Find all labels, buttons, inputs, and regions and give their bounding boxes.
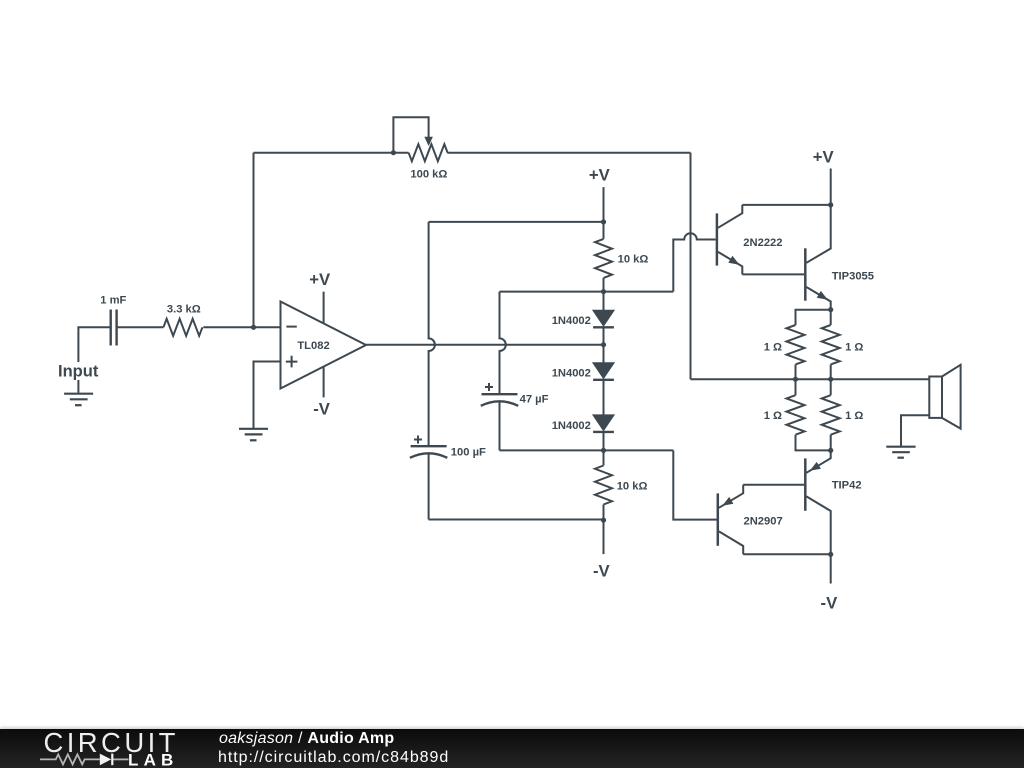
wire Q1 collector to +V rail bbox=[742, 204, 830, 206]
node junction dot (output/D1-D2) bbox=[601, 342, 606, 347]
wire -V lead middle bbox=[603, 520, 605, 554]
diode D1 1N4002 bbox=[594, 311, 613, 325]
transistor Q1 collector bbox=[718, 205, 742, 228]
wire speaker bottom terminal bbox=[901, 415, 929, 446]
svg-text:1N4002: 1N4002 bbox=[552, 420, 591, 432]
svg-text:-V: -V bbox=[593, 561, 611, 580]
svg-text:Input: Input bbox=[58, 363, 99, 381]
wire Q1 emitter to Q2 base bbox=[742, 273, 804, 275]
transistor Q1 emitter arrow bbox=[728, 256, 739, 265]
wire input corner bbox=[78, 327, 110, 362]
svg-text:2N2907: 2N2907 bbox=[744, 515, 783, 527]
svg-text:1N4002: 1N4002 bbox=[552, 368, 591, 380]
node junction dot (10k/D1) bbox=[601, 289, 606, 294]
svg-text:1 Ω: 1 Ω bbox=[764, 341, 782, 353]
speaker SPK1 body bbox=[929, 377, 942, 418]
svg-text:1 Ω: 1 Ω bbox=[845, 341, 863, 353]
wire right vertical (feedback to output node) bbox=[690, 153, 692, 380]
wire to left 1 ohm top bbox=[796, 310, 831, 325]
svg-text:100 kΩ: 100 kΩ bbox=[410, 168, 447, 180]
svg-text:TIP42: TIP42 bbox=[832, 480, 862, 492]
svg-text:LAB: LAB bbox=[128, 751, 179, 768]
svg-text:1N4002: 1N4002 bbox=[552, 315, 591, 327]
logo CIRCUIT text bbox=[44, 727, 179, 759]
wire +V lead middle bbox=[603, 187, 605, 222]
svg-text:+V: +V bbox=[589, 165, 611, 184]
wire D2-D3 bbox=[603, 380, 605, 416]
wire to 2N2222 base (with hop over x=690.5) bbox=[673, 233, 715, 291]
wire horizontal 450.4 bbox=[500, 449, 674, 451]
transistor Q3 TIP42 base bar bbox=[804, 458, 807, 510]
footer title line bbox=[219, 731, 394, 747]
wire to 2N2907 base bbox=[673, 450, 716, 519]
ground (speaker) bbox=[886, 447, 915, 458]
potentiometer 100 k body bbox=[409, 144, 448, 161]
transistor Q3 collector bbox=[806, 496, 830, 554]
wire output line to speaker bbox=[691, 378, 930, 380]
resistor 1 ohm top-left bbox=[787, 325, 805, 364]
resistor 10 k upper bbox=[595, 239, 612, 278]
svg-text:100 µF: 100 µF bbox=[451, 446, 486, 458]
resistor 1 ohm top-right bbox=[830, 310, 832, 325]
logo diode bbox=[100, 754, 111, 766]
wire feedback vertical bbox=[253, 153, 255, 328]
wire 100uF bottom lead bbox=[428, 453, 430, 519]
wire D3 bottom lead bbox=[603, 432, 605, 451]
svg-text:1 mF: 1 mF bbox=[100, 294, 126, 306]
transistor Q4 2N2907 base bar bbox=[717, 493, 720, 545]
transistor Q1 2N2222 base bar bbox=[716, 213, 719, 265]
node junction dot (Q2 emitter) bbox=[828, 307, 833, 312]
transistor Q3 emitter bbox=[806, 450, 830, 472]
wire horizontal 291.6 bbox=[500, 291, 674, 293]
transistor Q4 emitter bbox=[719, 485, 743, 508]
ground (input) bbox=[64, 394, 93, 406]
svg-text:1 Ω: 1 Ω bbox=[845, 410, 863, 422]
wire 47uF bottom lead bbox=[499, 401, 501, 450]
transistor Q3 emitter arrow bbox=[810, 462, 821, 471]
wire D1-D2 bbox=[603, 327, 605, 363]
potentiometer wiper arrow bbox=[424, 137, 433, 146]
capacitor 100 uF plus sign bbox=[414, 436, 422, 444]
wire +V lead right bbox=[830, 169, 832, 205]
resistor 10 k lower leads bbox=[603, 450, 605, 520]
footer bar bbox=[0, 729, 1024, 768]
node junction dot (D3/10k2) bbox=[601, 448, 606, 453]
wire feedback top horizontal bbox=[254, 152, 409, 154]
diode D3 1N4002 bbox=[594, 415, 613, 429]
op-amp plus sign bbox=[286, 356, 298, 368]
resistor 10 k lower bbox=[595, 466, 612, 505]
svg-text:+V: +V bbox=[309, 270, 331, 289]
node junction dot (+V middle) bbox=[601, 219, 606, 224]
node junction dot (-V right) bbox=[828, 552, 833, 557]
capacitor 1 mF bbox=[111, 310, 117, 346]
svg-text:3.3 kΩ: 3.3 kΩ bbox=[167, 304, 201, 316]
op-amp +V lead bbox=[323, 292, 325, 324]
svg-text:TIP3055: TIP3055 bbox=[832, 271, 874, 283]
diode D2 1N4002 bbox=[594, 363, 613, 377]
svg-text:TL082: TL082 bbox=[297, 340, 329, 352]
logo squiggle wire bbox=[40, 754, 129, 764]
capacitor 47 uF plus sign bbox=[485, 383, 493, 391]
svg-text:-V: -V bbox=[821, 593, 839, 612]
transistor Q4 emitter arrow bbox=[722, 497, 733, 506]
wire -V lead right bbox=[830, 554, 832, 583]
wire cap to resistor bbox=[117, 326, 163, 328]
svg-text:2N2222: 2N2222 bbox=[743, 237, 782, 249]
node junction dot (inverting input) bbox=[251, 325, 256, 330]
transistor Q2 TIP3055 base bar bbox=[804, 248, 807, 300]
transistor Q4 collector bbox=[719, 531, 743, 554]
wire 100uF branch vertical with hop bbox=[429, 222, 435, 446]
svg-text:1 Ω: 1 Ω bbox=[764, 410, 782, 422]
resistor 1 ohm bottom-right bbox=[830, 379, 832, 395]
transistor Q2 collector bbox=[806, 205, 830, 263]
node junction dot (left 1ohm / line) bbox=[793, 377, 798, 382]
node junction dot (+V right) bbox=[828, 202, 833, 207]
svg-text:+V: +V bbox=[813, 147, 835, 166]
svg-text:10 kΩ: 10 kΩ bbox=[617, 480, 648, 492]
wire op-amp output bbox=[366, 344, 604, 346]
op-amp U1 triangle bbox=[281, 302, 367, 389]
svg-text:-V: -V bbox=[313, 400, 331, 419]
wire horizontal 221.9 bbox=[429, 221, 604, 223]
op-amp minus sign bbox=[286, 326, 296, 328]
node junction dot (-V middle) bbox=[601, 518, 606, 523]
wire pot right to corner bbox=[447, 152, 690, 154]
svg-text:10 kΩ: 10 kΩ bbox=[618, 254, 649, 266]
ground (op-amp + input) bbox=[239, 429, 268, 441]
logo resistor-diode squiggle + LAB bbox=[0, 729, 180, 768]
wire 47uF branch vertical with hop bbox=[500, 292, 506, 395]
resistor 10 k upper leads bbox=[603, 222, 605, 292]
wire Q4 collector to -V node bbox=[743, 553, 831, 555]
transistor Q2 emitter bbox=[806, 287, 830, 310]
wire Q4 emitter to Q3 base bbox=[743, 484, 804, 486]
op-amp -V lead bbox=[323, 367, 325, 398]
wire resistor to op-amp minus input bbox=[203, 326, 280, 328]
resistor 1 ohm bottom-left bbox=[795, 379, 797, 395]
node junction dot (right 1ohm / line) bbox=[828, 377, 833, 382]
resistor 3.3 k bbox=[163, 319, 202, 336]
transistor Q2 emitter arrow bbox=[817, 291, 828, 300]
wire non-inverting input bbox=[254, 362, 281, 429]
wire input ground lead bbox=[77, 380, 79, 393]
node junction dot (pot left) bbox=[391, 150, 396, 155]
wire bottom-left horizontal bbox=[429, 519, 604, 521]
capacitor 47 uF bbox=[481, 394, 518, 406]
transistor Q1 emitter bbox=[718, 252, 742, 275]
svg-text:47 µF: 47 µF bbox=[520, 394, 549, 406]
node junction dot (bottom 1ohm) bbox=[828, 448, 833, 453]
speaker cone bbox=[942, 365, 961, 429]
capacitor 100 uF bbox=[410, 446, 447, 458]
wire D1 top lead bbox=[603, 292, 605, 311]
potentiometer wiper loop bbox=[393, 117, 428, 152]
footer url line bbox=[218, 750, 449, 766]
